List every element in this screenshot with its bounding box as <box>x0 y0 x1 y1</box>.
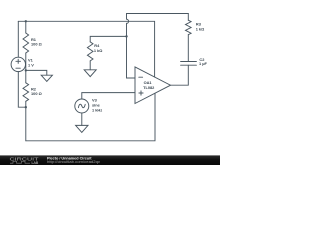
wire left rail lower (V1 bottom to R2 rail) <box>18 72 26 108</box>
wire top rail from V1 to op-amp V+ drop <box>18 21 154 77</box>
resistor R2 <box>23 83 29 101</box>
logo waveform <box>10 161 30 163</box>
op-amp minus sign <box>139 76 143 78</box>
wire R1 bottom to junction <box>25 53 27 70</box>
svg-text:1 kHz: 1 kHz <box>92 108 102 113</box>
capacitor C2 <box>181 62 197 66</box>
wire C2 bottom to op-amp output <box>171 65 189 85</box>
wire junction to ground 1 <box>26 70 47 75</box>
resistor R4 <box>87 42 93 61</box>
CircuitLab logo <box>10 157 39 166</box>
svg-text:1 µF: 1 µF <box>199 61 207 66</box>
node junction V1-R2 rail <box>25 106 27 108</box>
voltage source V1 <box>11 57 25 71</box>
wire R2 top stub <box>25 70 27 82</box>
svg-text:100 Ω: 100 Ω <box>31 91 42 96</box>
wire R4 bottom stub <box>89 61 91 70</box>
ground GND2 below R4 <box>84 70 96 77</box>
svg-text:TL082: TL082 <box>143 85 155 90</box>
wire R3 bottom to C2 <box>187 35 189 62</box>
wire R1 top stub <box>25 21 27 33</box>
op-amp plus sign <box>139 91 143 95</box>
ground GND3 below V3 <box>76 125 88 132</box>
wire + input from V3 <box>82 93 135 99</box>
wire R4 branch <box>90 36 126 42</box>
voltage source V3 sine <box>75 99 89 113</box>
resistor R3 <box>186 20 192 35</box>
node junction R1/R2/gnd <box>25 69 27 71</box>
svg-text:LAB: LAB <box>32 161 39 165</box>
wire R2 bottom to bottom rail <box>25 101 27 141</box>
svg-text:1 V: 1 V <box>28 62 34 67</box>
svg-text:1 kΩ: 1 kΩ <box>196 26 205 31</box>
wire V3 bottom stub <box>81 113 83 125</box>
op-amp OA1 triangle <box>135 67 171 104</box>
node junction R4 tap <box>125 35 127 37</box>
resistor R1 <box>23 33 29 53</box>
svg-text:1 kΩ: 1 kΩ <box>94 48 103 53</box>
node junction R1 top <box>25 20 27 22</box>
ground GND1 <box>41 75 52 81</box>
svg-text:100 Ω: 100 Ω <box>31 41 42 46</box>
wire left rail upper (top rail to V1 top) <box>17 21 19 57</box>
wire feedback top (to R3) <box>127 13 189 15</box>
wire R3 top stub <box>187 14 189 21</box>
svg-text:http://circuitlab.com/cead2qv: http://circuitlab.com/cead2qv <box>47 160 100 164</box>
wire bottom rail to op-amp V- pin <box>26 93 155 141</box>
wire feedback vertical with hop over top rail <box>127 14 136 79</box>
